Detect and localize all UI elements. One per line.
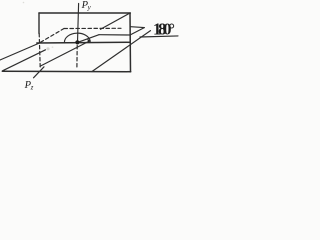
ray from O up-right [78,35,100,43]
180 degree arc [64,33,90,42]
dashed continuation of edge A [41,29,65,43]
dashed horizontal hidden edge [64,27,121,29]
leader line from label P_z [34,67,45,78]
left lower slant edge B of plane P_z [3,50,46,71]
svg-text:Pz: Pz [24,80,34,90]
top edge of right half-plane [99,34,130,36]
main horizontal edge line [37,41,130,44]
back slant edge from top-right corner [101,13,131,29]
vertical dashed line below point O [76,46,78,68]
svg-text:180°: 180° [153,20,175,39]
plane P_y rectangle right edge [129,13,132,72]
left upper slant edge A of plane [0,43,40,60]
plane P_y rectangle top edge [39,12,130,14]
rotation wedge upper stroke [131,26,145,29]
plane P_y rectangle left edge hidden (dashed) [39,34,40,68]
arrowhead at arc end [87,38,91,42]
paper smudge [46,47,49,50]
line under 180 label [140,36,178,37]
long diagonal through right edge [92,31,151,72]
vertical axis line above point O [78,4,79,43]
plane P_y rectangle left edge (solid upper part) [38,13,40,34]
point O dot [75,40,79,44]
mid diagonal line to point O [40,42,88,67]
rotation wedge lower stroke [131,28,145,35]
bottom front edge of plane P_z [2,70,130,73]
svg-text:Py: Py [81,0,92,11]
